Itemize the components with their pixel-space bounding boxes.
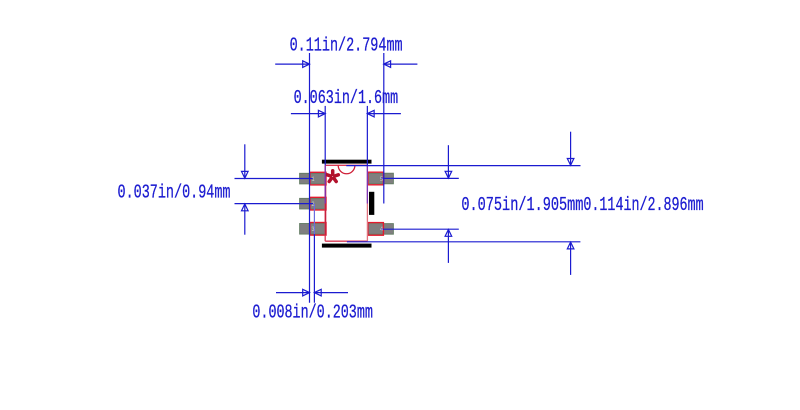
pad 2 copper (left middle) [300,198,326,209]
dim text 0.11in/2.794mm [290,35,403,57]
pad number 1 [311,176,314,183]
dim text 0.114in/2.896mm [583,194,703,216]
dim line pad2 center y=203.6 [235,203,314,205]
svg-text:3: 3 [311,226,314,233]
svg-text:0.075in/1.905mm: 0.075in/1.905mm [461,194,583,216]
pad 4 outline [368,223,384,236]
svg-text:1: 1 [311,176,314,183]
pad number 5 [380,176,383,183]
svg-text:0.008in/0.203mm: 0.008in/0.203mm [252,302,373,324]
pad 1 outline [310,172,326,185]
svg-text:0.114in/2.896mm: 0.114in/2.896mm [583,194,703,216]
dimension extension line x=314.4 (mask reference) [313,204,315,303]
pad 1 copper (left top) [300,173,326,184]
dim line body bottom y=241.8 [347,241,581,243]
dim line pad4 center y=229.2 [381,228,459,230]
dim text 0.008in/0.203mm [252,302,373,324]
pad 2 outline [310,197,326,210]
dim line body top y=165.6 [346,165,580,167]
pad 3 copper (left bottom) [300,224,326,235]
dim line pad5 center y=178.4 [381,177,459,179]
left dim vertical with arrows x=244.8 [242,144,249,234]
dimension extension line x=309.5 (pad left reference) [309,53,311,303]
svg-text:0.037in/0.94mm: 0.037in/0.94mm [118,182,231,204]
silkscreen top bar [322,160,372,164]
pad number 2 [311,201,314,208]
pad 3 outline [310,223,326,236]
silkscreen right bar [369,192,374,215]
svg-text:0.063in/1.6mm: 0.063in/1.6mm [294,87,399,109]
svg-text:2: 2 [311,201,314,208]
dim arrows lead span y=64 [275,61,417,68]
pad number 3 [311,226,314,233]
pad 4 copper (right bottom) [368,224,394,235]
dimension extension line x=325.2 (body left) [324,106,326,204]
package body outline [325,165,367,241]
right outer dim vertical with arrows x=570.6 [567,132,574,275]
right inner dim vertical with arrows x=448.4 [445,145,452,263]
svg-text:5: 5 [380,176,383,183]
dimension extension line x=367.35 (body right) [366,106,368,204]
silkscreen bottom bar [322,244,372,248]
svg-text:4: 4 [380,226,383,233]
pin-1 marker asterisk [327,171,338,182]
dim text 0.037in/0.94mm [118,182,231,204]
dim text 0.063in/1.6mm [294,87,399,109]
dim text 0.075in/1.905mm [461,194,583,216]
dim line pad1 center y=178.5 [235,178,313,180]
pad 5 outline [368,172,384,185]
pad number 4 [380,226,383,233]
dimension extension line x=383.8 (pad right reference) [383,53,385,204]
bottom dim arrows y=292.6 [276,289,348,296]
dim arrows body width y=113.6 [291,110,401,117]
pin-1 index arc on body top edge [338,165,355,173]
pad 5 copper (right top) [368,173,394,184]
svg-text:0.11in/2.794mm: 0.11in/2.794mm [290,35,403,57]
